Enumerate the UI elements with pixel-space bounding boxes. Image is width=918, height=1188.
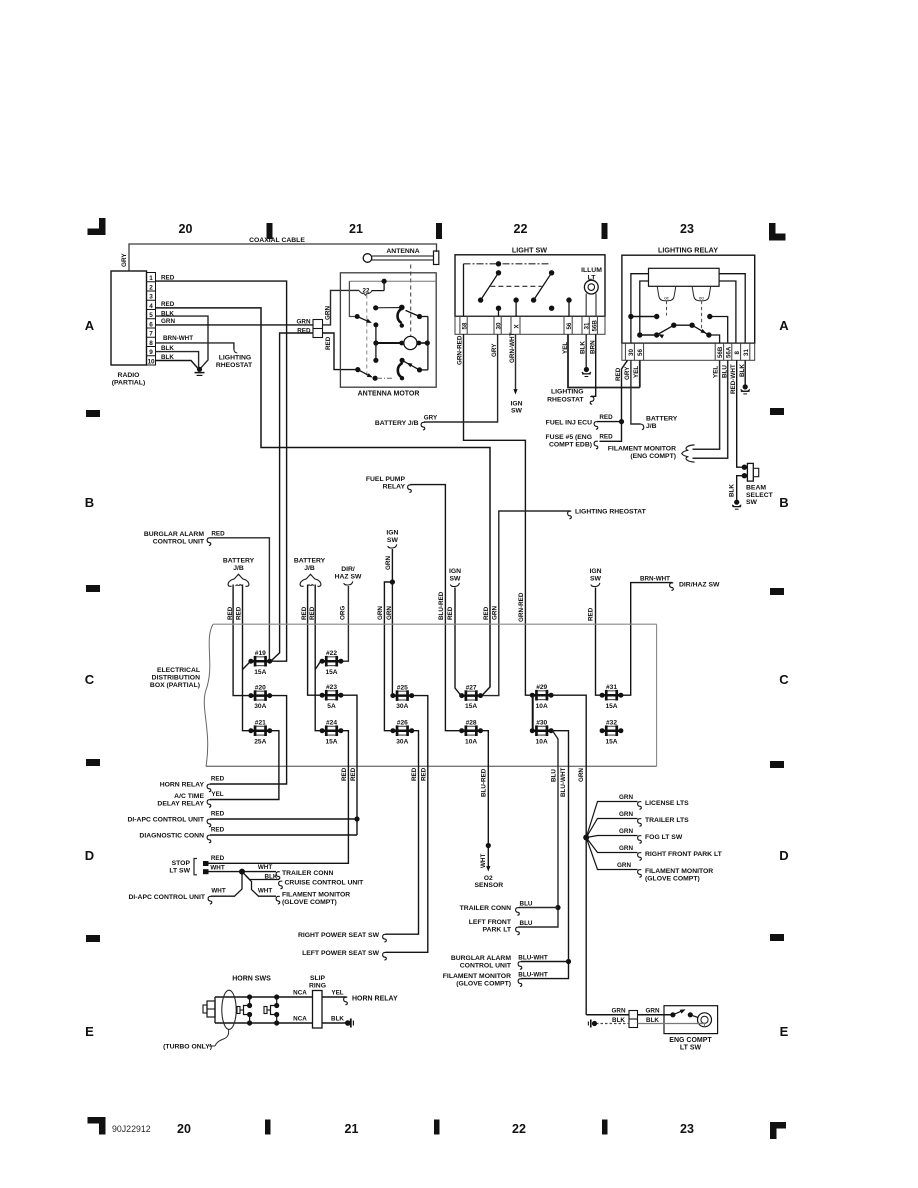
svg-text:TRAILER CONN: TRAILER CONN xyxy=(460,905,511,912)
svg-text:oo: oo xyxy=(699,295,705,300)
svg-text:(TURBO ONLY): (TURBO ONLY) xyxy=(163,1044,212,1051)
label IGN SW (grn) xyxy=(386,529,398,548)
svg-text:GRN: GRN xyxy=(161,318,175,325)
svg-text:RED: RED xyxy=(211,775,225,782)
column tick 22/23 (bottom) xyxy=(602,1120,608,1135)
svg-text:RADIO: RADIO xyxy=(118,372,140,379)
fuse #28 10A xyxy=(459,720,483,746)
svg-text:15A: 15A xyxy=(254,669,266,676)
svg-text:10: 10 xyxy=(147,358,155,365)
row tick (right) xyxy=(770,934,784,941)
relay pin strip xyxy=(622,343,755,360)
svg-text:10A: 10A xyxy=(465,738,477,745)
svg-text:C: C xyxy=(779,672,789,687)
row tick (right) xyxy=(770,761,784,768)
svg-text:HORN RELAY: HORN RELAY xyxy=(160,782,205,789)
wire fuse #21 to a/c time delay relay xyxy=(210,731,279,800)
stop lt sw connector xyxy=(169,855,224,875)
column tick 22/23 (top) xyxy=(602,223,608,239)
svg-text:FUSE #5 (ENG: FUSE #5 (ENG xyxy=(546,434,592,441)
svg-text:56B: 56B xyxy=(717,346,724,358)
svg-text:FILAMENT MONITOR: FILAMENT MONITOR xyxy=(645,868,713,875)
wire RED ign sw to fuse #27 xyxy=(455,588,461,696)
label DIR/HAZ SW (org) xyxy=(335,566,362,585)
page corner mark top-left xyxy=(88,218,106,235)
label LEFT FRONT PARK LT xyxy=(469,919,533,935)
label IGN SW (red fuse31) xyxy=(589,568,601,587)
svg-text:LIGHTING: LIGHTING xyxy=(219,354,251,361)
label WHT / O2 SENSOR xyxy=(474,854,503,890)
label BRN-WHT / DIR-HAZ SW (fuse31) xyxy=(640,576,720,591)
svg-text:15A: 15A xyxy=(605,738,617,745)
label CRUISE CONTROL UNIT (blk) xyxy=(265,873,365,888)
svg-text:ANTENNA: ANTENNA xyxy=(386,248,419,255)
label IGN SW (light sw X) xyxy=(510,400,522,414)
wire fuse #24 to stop lt sw xyxy=(208,731,348,864)
fuse #21 25A xyxy=(248,720,272,746)
svg-text:56A: 56A xyxy=(725,346,732,358)
label A/C TIME DELAY RELAY xyxy=(157,791,223,808)
svg-text:J/B: J/B xyxy=(646,423,657,430)
svg-text:RIGHT POWER SEAT SW: RIGHT POWER SEAT SW xyxy=(298,932,380,939)
svg-text:2: 2 xyxy=(149,284,153,291)
svg-text:LT SW: LT SW xyxy=(680,1045,702,1052)
svg-text:BRN-WHT: BRN-WHT xyxy=(640,576,670,583)
wire BLK slip ring to ground xyxy=(322,1016,346,1023)
wire BLU fuse #30 to trailer conn / left front park lt xyxy=(519,731,561,927)
antenna motor inner top bus xyxy=(349,280,436,282)
eng compt lt sw box xyxy=(664,1006,718,1052)
motor switch bottom-right xyxy=(398,358,428,381)
svg-text:56: 56 xyxy=(637,349,644,356)
ground (relay 31) xyxy=(743,384,748,389)
svg-text:(GLOVE COMPT): (GLOVE COMPT) xyxy=(456,980,511,987)
motor M (antenna motor) xyxy=(404,336,417,349)
svg-text:GRN-RED: GRN-RED xyxy=(518,592,525,622)
svg-text:31: 31 xyxy=(743,349,750,356)
svg-text:RING: RING xyxy=(309,983,326,990)
wire GRN to eng compt connector xyxy=(586,1008,629,1015)
svg-text:RED: RED xyxy=(211,530,225,537)
svg-text:ILLUM: ILLUM xyxy=(581,267,602,274)
wire BRN-WHT fuse #31 to dir/haz sw xyxy=(622,583,673,696)
wire ORG dir/haz sw to fuse #22 xyxy=(342,586,348,661)
svg-text:BLU: BLU xyxy=(550,769,557,782)
wire fuse #29/#30 left bracket xyxy=(531,695,533,731)
svg-text:BLK: BLK xyxy=(265,873,278,880)
svg-text:SW: SW xyxy=(387,537,399,544)
node (motor top bus) xyxy=(382,279,387,291)
svg-text:RED: RED xyxy=(350,767,357,781)
label (TURBO ONLY) xyxy=(163,1030,228,1051)
svg-text:TRAILER CONN: TRAILER CONN xyxy=(282,870,333,877)
svg-text:STOP: STOP xyxy=(172,860,191,867)
wire fuse #25/#26 left bracket xyxy=(532,696,534,731)
svg-text:E: E xyxy=(780,1024,789,1039)
page corner mark bottom-right xyxy=(770,1122,786,1139)
ground (light sw 31) xyxy=(584,367,589,372)
svg-text:15A: 15A xyxy=(325,738,337,745)
svg-text:GRN: GRN xyxy=(578,768,585,782)
grn fan to filament monitor glove compt xyxy=(586,838,713,883)
label FILAMENT MONITOR (GLOVE COMPT) (wht) xyxy=(258,888,350,907)
grn fan to trailer lts xyxy=(586,811,689,837)
svg-text:GRN: GRN xyxy=(386,606,393,620)
svg-text:BLU: BLU xyxy=(520,901,533,908)
fuse #29 10A xyxy=(530,684,554,710)
wire radio pin4 RED to fuse #27 xyxy=(156,308,491,696)
wire BLK beam select to ground xyxy=(737,476,745,500)
label BURGLAR ALARM CONTROL UNIT (blu-wht) xyxy=(451,955,548,970)
connector GRN/RED (radio to antenna motor) xyxy=(313,320,323,338)
svg-text:FUEL PUMP: FUEL PUMP xyxy=(366,476,406,483)
svg-text:LIGHTING RHEOSTAT: LIGHTING RHEOSTAT xyxy=(575,509,647,516)
svg-text:56B: 56B xyxy=(592,320,599,332)
light switch pin strip xyxy=(455,316,605,334)
svg-text:LT SW: LT SW xyxy=(169,867,190,874)
fuse #23 5A xyxy=(320,684,344,710)
wire fuse #23 to di-apc / diagnostic xyxy=(210,695,360,835)
svg-text:30: 30 xyxy=(628,349,635,356)
grn fan to license lts xyxy=(586,794,689,837)
relay coil right xyxy=(692,286,711,300)
battery J/B bracket 2 xyxy=(294,557,326,586)
svg-text:7: 7 xyxy=(149,331,153,338)
svg-text:WHT: WHT xyxy=(258,864,272,871)
svg-text:6: 6 xyxy=(149,321,153,328)
svg-text:B: B xyxy=(85,495,94,510)
svg-text:BURGLAR ALARM: BURGLAR ALARM xyxy=(451,955,511,962)
svg-text:J/B: J/B xyxy=(304,565,315,572)
wire RED battery1 to fuse #20 xyxy=(233,585,249,696)
svg-text:PARK LT: PARK LT xyxy=(483,927,512,934)
relay dashed coil links xyxy=(667,301,702,330)
svg-text:(GLOVE COMPT): (GLOVE COMPT) xyxy=(282,899,337,906)
label LIGHTING RHEOSTAT (fuse 27) xyxy=(568,509,647,519)
light sw internal contacts xyxy=(464,261,572,316)
ground (horn) xyxy=(345,1019,353,1028)
svg-text:RED: RED xyxy=(211,826,225,833)
light switch box xyxy=(455,246,605,317)
wire radio pin8 BRN-WHT to lighting rheostat xyxy=(156,343,238,353)
wire GRN connector to eng compt lt sw xyxy=(638,1008,672,1015)
svg-text:A: A xyxy=(779,318,789,333)
svg-text:90J22912: 90J22912 xyxy=(112,1124,151,1134)
svg-text:22: 22 xyxy=(512,1122,526,1136)
wire GRY light sw 30 to battery J/B xyxy=(424,334,498,422)
svg-text:BATTERY: BATTERY xyxy=(294,557,326,564)
svg-text:ANTENNA MOTOR: ANTENNA MOTOR xyxy=(358,390,420,397)
fuse #20 30A xyxy=(248,684,272,710)
label FILAMENT MONITOR (ENG COMPT) xyxy=(608,446,676,461)
motor lower stub + node xyxy=(373,343,378,363)
label FUSE #5 (ENG COMPT EDB) xyxy=(546,433,614,448)
svg-text:RIGHT FRONT PARK LT: RIGHT FRONT PARK LT xyxy=(645,851,723,858)
wire fuse #26 to right power seat sw xyxy=(386,731,419,935)
svg-text:3: 3 xyxy=(149,294,153,301)
svg-text:SENSOR: SENSOR xyxy=(474,882,503,889)
motor right wiring xyxy=(417,317,430,370)
slip ring xyxy=(313,991,323,1029)
label HORN RELAY xyxy=(160,775,225,791)
svg-text:YEL: YEL xyxy=(211,791,223,798)
svg-text:22: 22 xyxy=(514,222,528,236)
svg-text:21: 21 xyxy=(349,222,363,236)
svg-text:25A: 25A xyxy=(254,738,266,745)
svg-text:15A: 15A xyxy=(325,669,337,676)
wire fuse #20 to horn relay xyxy=(210,696,287,784)
relay internal wiring left xyxy=(628,274,659,343)
relay coil left xyxy=(657,286,676,300)
dashed antenna shaft xyxy=(410,265,412,337)
svg-text:CONTROL UNIT: CONTROL UNIT xyxy=(153,538,205,545)
svg-text:NCA: NCA xyxy=(293,990,307,997)
motor switch bottom-left xyxy=(355,367,393,381)
svg-text:RED: RED xyxy=(447,606,454,620)
svg-text:BLK: BLK xyxy=(646,1017,659,1024)
wire radio pin1 RED to fuse #19 xyxy=(156,281,287,661)
svg-text:SW: SW xyxy=(450,575,462,582)
svg-text:SW: SW xyxy=(511,407,523,414)
wire RED battery1 to fuses #19/#21 xyxy=(243,585,251,731)
wire GRN-RED light sw 58 to fuse #29 xyxy=(464,334,532,695)
horn switch 1 xyxy=(237,994,252,1025)
svg-text:DIR/: DIR/ xyxy=(341,566,355,573)
label DI-APC CONTROL UNIT (red) xyxy=(127,810,224,826)
eng compt lt sw contacts xyxy=(670,1007,698,1017)
row tick (right) xyxy=(770,588,784,595)
lamp (eng compt) xyxy=(698,1013,712,1027)
svg-text:BLK: BLK xyxy=(331,1016,344,1023)
svg-text:C: C xyxy=(85,672,95,687)
dashed guide (motor left) xyxy=(366,295,368,378)
svg-text:BLU-WHT: BLU-WHT xyxy=(518,955,548,962)
svg-text:9: 9 xyxy=(149,349,153,356)
svg-text:BLK: BLK xyxy=(161,354,174,361)
beam select switch xyxy=(742,463,759,481)
wire radio pin10 BLK to ground xyxy=(156,361,198,369)
svg-text:DI-APC CONTROL UNIT: DI-APC CONTROL UNIT xyxy=(128,894,205,901)
svg-text:10A: 10A xyxy=(536,703,548,710)
label BATTERY J/B (gry) xyxy=(375,415,438,430)
svg-text:YEL: YEL xyxy=(712,366,719,378)
svg-text:20: 20 xyxy=(177,1122,191,1136)
radio (partial) box xyxy=(111,271,147,387)
svg-text:BLK: BLK xyxy=(612,1017,625,1024)
svg-text:RED: RED xyxy=(211,855,225,862)
label BATTERY J/B (relay gry) xyxy=(641,416,678,431)
svg-text:CONTROL UNIT: CONTROL UNIT xyxy=(460,963,512,970)
svg-text:30A: 30A xyxy=(396,703,408,710)
svg-text:10A: 10A xyxy=(536,738,548,745)
svg-text:GRY: GRY xyxy=(424,415,438,422)
battery J/B bracket 1 xyxy=(223,557,255,586)
svg-text:RHEOSTAT: RHEOSTAT xyxy=(547,396,584,403)
svg-text:D: D xyxy=(779,848,788,863)
fuse #26 30A xyxy=(390,720,414,746)
column tick 21/22 (top) xyxy=(436,223,442,239)
svg-text:BLK: BLK xyxy=(580,341,587,354)
label TRAILER CONN (blu) xyxy=(460,901,533,916)
column tick 21/22 (bottom) xyxy=(434,1120,440,1135)
wire BLU-WHT fuse #30 to burglar alarm / filament monitor xyxy=(521,731,571,979)
svg-text:21: 21 xyxy=(345,1122,359,1136)
svg-text:GRN: GRN xyxy=(617,862,631,869)
svg-text:RED: RED xyxy=(411,767,418,781)
svg-text:BOX (PARTIAL): BOX (PARTIAL) xyxy=(150,682,200,689)
wire stop lt sw WHT branch node xyxy=(208,869,276,875)
grn fan to fog lt sw xyxy=(586,828,683,843)
label RIGHT POWER SEAT SW xyxy=(298,932,386,942)
svg-text:15A: 15A xyxy=(465,703,477,710)
svg-text:GRN: GRN xyxy=(385,556,392,570)
svg-text:GRY: GRY xyxy=(491,343,498,357)
wire BLK to cruise control unit xyxy=(242,872,279,880)
fuse #25 30A xyxy=(390,684,414,710)
svg-text:58: 58 xyxy=(461,322,468,329)
svg-text:oc: oc xyxy=(664,295,670,300)
label BURGLAR ALARM CONTROL UNIT (red) xyxy=(144,530,225,545)
svg-text:IGN: IGN xyxy=(510,400,522,407)
wire BLK relay 31 to ground xyxy=(744,360,746,385)
label TRAILER CONN (wht) xyxy=(258,864,334,879)
relay coil to pins 31 and 8 xyxy=(719,274,745,343)
svg-text:BRN-WHT: BRN-WHT xyxy=(163,335,193,342)
svg-text:CRUISE CONTROL UNIT: CRUISE CONTROL UNIT xyxy=(285,880,365,887)
svg-text:GRN: GRN xyxy=(646,1008,660,1015)
svg-text:B: B xyxy=(779,495,788,510)
svg-text:O2: O2 xyxy=(484,875,493,882)
label DI-APC CONTROL UNIT (wht) xyxy=(128,888,225,904)
fuse #31 15A xyxy=(600,684,624,710)
svg-text:1: 1 xyxy=(149,275,153,282)
svg-text:YEL: YEL xyxy=(331,990,343,997)
svg-text:BLU-WHT: BLU-WHT xyxy=(518,972,548,979)
fuse #27 15A xyxy=(459,684,483,710)
svg-text:SELECT: SELECT xyxy=(746,492,774,499)
label FUEL PUMP RELAY xyxy=(366,476,411,493)
column tick 20/21 (bottom) xyxy=(265,1120,271,1135)
svg-text:J/B: J/B xyxy=(233,565,244,572)
svg-text:NCA: NCA xyxy=(293,1016,307,1023)
ground (beam select) xyxy=(734,500,739,505)
wire YEL relay 56 (down) xyxy=(639,360,641,387)
svg-text:HAZ SW: HAZ SW xyxy=(335,573,362,580)
label LEFT POWER SEAT SW xyxy=(302,950,386,960)
relay switch arms xyxy=(637,323,720,344)
page corner mark top-right xyxy=(769,223,786,241)
wire YEL light sw 56 to lighting relay 56 xyxy=(568,334,640,387)
svg-text:GRY: GRY xyxy=(624,366,631,380)
row tick (left) xyxy=(86,759,100,766)
wire GRY relay 30 to battery J/B xyxy=(631,360,641,424)
svg-text:GRN: GRN xyxy=(619,811,633,818)
connector arrows filament monitor eng compt xyxy=(682,445,695,462)
svg-text:LICENSE LTS: LICENSE LTS xyxy=(645,800,689,807)
wire BLU-RED fuse #28 to O2 sensor xyxy=(480,731,491,872)
svg-text:8: 8 xyxy=(149,340,153,347)
wire RED burglar alarm to fuse #19 xyxy=(210,538,269,659)
svg-text:RED: RED xyxy=(211,810,225,817)
svg-text:DIR/HAZ SW: DIR/HAZ SW xyxy=(679,581,720,588)
svg-text:HORN RELAY: HORN RELAY xyxy=(352,995,398,1002)
wire WHT to di-apc control unit xyxy=(211,872,242,897)
svg-text:FILAMENT MONITOR: FILAMENT MONITOR xyxy=(282,892,350,899)
antenna xyxy=(363,248,439,265)
svg-text:RED: RED xyxy=(587,607,594,621)
svg-text:BURGLAR ALARM: BURGLAR ALARM xyxy=(144,531,204,538)
svg-text:GRN: GRN xyxy=(377,606,384,620)
wire GRN-WHT light sw X to ign sw xyxy=(513,334,517,394)
wire radio pin6 GRN to connector xyxy=(156,324,314,326)
wire RED antenna-motor branch down to fuse #19 xyxy=(272,333,314,661)
svg-text:BLU: BLU xyxy=(520,920,533,927)
svg-text:COMPT EDB): COMPT EDB) xyxy=(549,441,592,448)
svg-text:BLU-WHT: BLU-WHT xyxy=(560,767,567,797)
lighting relay box xyxy=(622,246,755,344)
label SLIP RING xyxy=(309,975,326,990)
svg-text:GRN: GRN xyxy=(619,794,633,801)
svg-text:A: A xyxy=(85,318,95,333)
horn switch 2 xyxy=(264,994,279,1025)
row tick (right) xyxy=(770,408,784,415)
svg-text:5A: 5A xyxy=(327,703,336,710)
svg-text:(ENG COMPT): (ENG COMPT) xyxy=(630,453,676,460)
svg-text:LEFT FRONT: LEFT FRONT xyxy=(469,919,512,926)
svg-text:DIAGNOSTIC CONN: DIAGNOSTIC CONN xyxy=(139,833,204,840)
steering wheel ellipse (horn) xyxy=(222,990,236,1029)
svg-text:5: 5 xyxy=(149,312,153,319)
svg-text:23: 23 xyxy=(680,1122,694,1136)
svg-text:GRN: GRN xyxy=(619,845,633,852)
svg-text:D: D xyxy=(85,848,94,863)
antenna motor box xyxy=(340,273,436,398)
wire coaxial cable (GRY) radio to antenna xyxy=(129,244,437,271)
label BEAM SELECT SW xyxy=(746,484,774,506)
svg-text:RED: RED xyxy=(599,414,613,421)
wire fuel inj ecu tap xyxy=(597,421,622,423)
svg-text:GRN: GRN xyxy=(325,306,332,320)
ground (radio) xyxy=(195,367,205,376)
svg-text:WHT: WHT xyxy=(210,864,224,871)
wire WHT to filament monitor glove compt xyxy=(246,875,277,896)
wire BLK light sw 31 to ground xyxy=(585,334,587,367)
svg-text:RED: RED xyxy=(161,301,175,308)
motor switch top-right xyxy=(373,305,428,328)
svg-text:SLIP: SLIP xyxy=(310,975,326,982)
svg-text:FUEL INJ ECU: FUEL INJ ECU xyxy=(546,419,592,426)
svg-text:RED: RED xyxy=(599,433,613,440)
svg-text:IGN: IGN xyxy=(449,568,461,575)
svg-text:BLU-RED: BLU-RED xyxy=(481,768,488,797)
svg-text:BATTERY J/B: BATTERY J/B xyxy=(375,420,419,427)
svg-text:(PARTIAL): (PARTIAL) xyxy=(112,380,145,387)
svg-text:SW: SW xyxy=(590,575,602,582)
svg-text:BLK: BLK xyxy=(728,484,735,497)
page corner mark bottom-left xyxy=(88,1117,106,1135)
svg-text:BATTERY: BATTERY xyxy=(646,416,678,423)
svg-text:FOG LT SW: FOG LT SW xyxy=(645,834,683,841)
wire GRN lighting rheostat to fuse #27 xyxy=(482,511,571,696)
wire GRN connector to antenna motor xyxy=(323,290,360,325)
connector GRN/BLK (eng compt) xyxy=(629,1011,638,1028)
svg-text:GRN: GRN xyxy=(619,828,633,835)
svg-text:BATTERY: BATTERY xyxy=(223,557,255,564)
svg-text:RED: RED xyxy=(325,336,332,350)
svg-text:30A: 30A xyxy=(254,703,266,710)
svg-text:4: 4 xyxy=(149,303,153,310)
inline connector 22 (motor) xyxy=(359,288,384,296)
